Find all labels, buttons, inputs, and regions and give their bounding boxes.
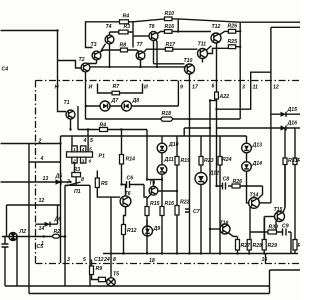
- svg-text:R9: R9: [96, 266, 103, 272]
- svg-text:R31: R31: [288, 158, 298, 164]
- svg-text:R5: R5: [101, 181, 108, 187]
- svg-text:Д14: Д14: [252, 161, 263, 167]
- svg-text:Д13: Д13: [252, 143, 263, 149]
- svg-text:И: И: [89, 85, 93, 91]
- svg-text:6: 6: [89, 158, 92, 163]
- svg-text:R17: R17: [166, 42, 177, 48]
- svg-text:4: 4: [40, 156, 44, 162]
- svg-text:R3: R3: [74, 167, 81, 173]
- svg-text:2: 2: [38, 139, 42, 145]
- svg-text:П1: П1: [74, 189, 81, 195]
- svg-text:R4: R4: [100, 123, 107, 129]
- svg-text:Т11: Т11: [198, 42, 207, 48]
- svg-text:5: 5: [83, 257, 86, 263]
- svg-text:Т12: Т12: [212, 24, 221, 30]
- svg-text:С7: С7: [193, 209, 201, 215]
- svg-text:R10: R10: [165, 11, 175, 17]
- svg-text:16: 16: [262, 257, 268, 263]
- svg-text:С8: С8: [223, 177, 230, 183]
- svg-text:R25: R25: [228, 39, 238, 45]
- svg-text:P1: P1: [99, 154, 105, 160]
- svg-text:Д11: Д11: [164, 157, 174, 163]
- svg-text:5: 5: [89, 146, 92, 151]
- svg-text:24: 24: [103, 257, 110, 263]
- svg-text:А22: А22: [219, 94, 230, 100]
- svg-text:4: 4: [83, 138, 87, 144]
- svg-text:Д12: Д12: [209, 171, 220, 177]
- svg-text:Т14: Т14: [250, 193, 259, 199]
- svg-text:R16: R16: [165, 24, 175, 30]
- svg-text:Д10: Д10: [168, 142, 179, 148]
- svg-text:2: 2: [72, 158, 76, 163]
- svg-text:И: И: [144, 85, 148, 91]
- svg-text:18: 18: [149, 258, 155, 264]
- svg-text:1: 1: [41, 241, 44, 247]
- svg-text:R4: R4: [123, 14, 130, 20]
- svg-text:R15: R15: [150, 201, 160, 207]
- svg-text:R12: R12: [127, 228, 137, 234]
- svg-text:Т1: Т1: [64, 100, 70, 106]
- svg-text:3: 3: [82, 158, 85, 163]
- svg-text:С9: С9: [282, 224, 289, 230]
- svg-text:R18: R18: [162, 111, 172, 117]
- svg-text:С4: С4: [2, 67, 9, 73]
- svg-text:R14: R14: [126, 157, 136, 163]
- svg-text:14: 14: [39, 226, 45, 232]
- svg-text:3: 3: [67, 257, 70, 263]
- svg-text:1: 1: [73, 147, 76, 152]
- svg-text:Т3: Т3: [91, 42, 97, 48]
- svg-text:11: 11: [253, 85, 258, 91]
- svg-text:9: 9: [180, 85, 183, 91]
- svg-text:Д5: Д5: [55, 174, 63, 180]
- svg-text:R29: R29: [268, 243, 278, 249]
- svg-text:R3: R3: [124, 24, 131, 30]
- svg-text:R23: R23: [204, 158, 214, 164]
- svg-text:R8: R8: [120, 43, 127, 49]
- svg-text:Т8: Т8: [149, 24, 155, 30]
- svg-text:6: 6: [212, 84, 215, 90]
- svg-text:Т2: Т2: [79, 57, 85, 63]
- svg-text:R2: R2: [54, 229, 61, 235]
- svg-text:С12: С12: [94, 257, 104, 263]
- svg-text:R22: R22: [180, 200, 190, 206]
- svg-text:8: 8: [81, 177, 84, 183]
- svg-text:12: 12: [39, 198, 45, 204]
- svg-text:8: 8: [113, 257, 116, 263]
- svg-text:Д15: Д15: [287, 107, 298, 113]
- svg-text:R26: R26: [228, 24, 238, 30]
- svg-text:5: 5: [90, 138, 93, 144]
- svg-text:3: 3: [242, 85, 245, 91]
- svg-text:Д8: Д8: [132, 98, 140, 104]
- svg-text:4: 4: [81, 147, 85, 152]
- svg-text:R16: R16: [165, 201, 175, 207]
- svg-text:R28: R28: [253, 243, 263, 249]
- svg-text:R30: R30: [269, 225, 279, 231]
- svg-text:R7: R7: [113, 84, 121, 90]
- svg-text:Д9: Д9: [153, 226, 161, 232]
- svg-text:Т15: Т15: [274, 207, 283, 213]
- svg-text:Т4: Т4: [106, 24, 112, 30]
- svg-text:Н: Н: [55, 85, 59, 91]
- svg-text:Т16: Т16: [220, 221, 229, 227]
- svg-text:R19: R19: [181, 158, 191, 164]
- svg-text:R32: R32: [298, 243, 301, 249]
- svg-text:R27: R27: [241, 243, 252, 249]
- svg-text:Т5: Т5: [113, 272, 119, 278]
- svg-text:Л2: Л2: [19, 229, 27, 235]
- svg-text:R33: R33: [298, 158, 301, 164]
- svg-text:R26: R26: [233, 179, 243, 185]
- svg-text:Д7: Д7: [111, 98, 120, 104]
- svg-text:Т9: Т9: [149, 181, 155, 187]
- svg-text:13: 13: [43, 176, 49, 182]
- svg-text:Т10: Т10: [184, 58, 193, 64]
- svg-text:Д16: Д16: [287, 121, 298, 127]
- svg-text:Д6: Д6: [54, 217, 62, 223]
- svg-text:R24: R24: [222, 157, 232, 163]
- svg-text:С6: С6: [127, 176, 134, 182]
- svg-text:Т6: Т6: [125, 191, 131, 197]
- svg-text:12: 12: [273, 85, 279, 91]
